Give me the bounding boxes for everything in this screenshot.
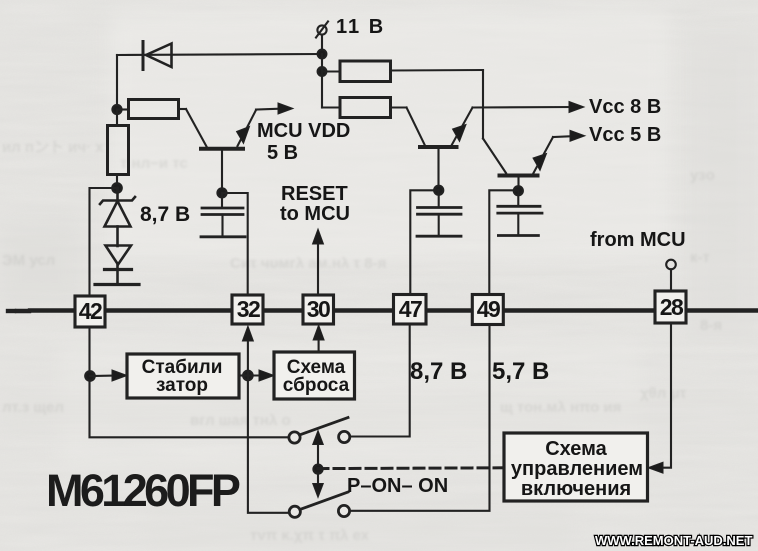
- svg-text:Схема: Схема: [545, 438, 607, 460]
- node at R3 branch: [318, 67, 327, 76]
- arrow reset box to pin30: [313, 325, 324, 352]
- terminal 11V: [316, 22, 328, 54]
- svg-text:P–ON– ON: P–ON– ON: [347, 475, 448, 497]
- node at 11V line: [318, 50, 327, 59]
- resistor R4: [340, 98, 407, 118]
- wire pin47 down to switch1: [350, 324, 410, 437]
- arrow into reset box: [248, 370, 274, 381]
- wire C1 node to pin32: [222, 193, 248, 295]
- zener diode VD1: [100, 188, 135, 246]
- wire left drop from diode: [116, 55, 118, 110]
- svg-text:8,7 В: 8,7 В: [410, 358, 467, 385]
- svg-text:узο: узο: [690, 167, 715, 184]
- wire pin49 down to switch2: [350, 324, 490, 511]
- arrow into stabilizer: [90, 370, 127, 381]
- node stabilizer output: [243, 371, 253, 381]
- node on dashed control line: [313, 465, 322, 474]
- arrow RESET to MCU: [313, 229, 324, 295]
- arrow node up to pin32: [242, 326, 253, 376]
- svg-text:M61260FP: M61260FP: [46, 465, 240, 516]
- wire pin28 down to control box: [648, 323, 671, 473]
- resistor R1: [108, 110, 129, 188]
- arrow Vcc 5 V output: [553, 130, 585, 141]
- wire stabilizer node down to switch2: [248, 376, 289, 513]
- transistor Q2: [407, 108, 473, 191]
- svg-text:Сиτ чυмгλ ам.нλ τ 8-я: Сиτ чυмгλ ам.нλ τ 8-я: [230, 255, 386, 272]
- capacitor C2: [417, 186, 461, 237]
- bottom bar of zener chain: [95, 283, 139, 286]
- terminal from MCU: [666, 260, 676, 291]
- svg-text:11 В: 11 В: [336, 16, 385, 38]
- wire node to pin42: [90, 188, 118, 296]
- svg-text:щ тон.мλ нπο ия: щ тон.мλ нπο ия: [500, 399, 621, 416]
- svg-text:затор: затор: [156, 375, 208, 396]
- svg-text:лт.з щел: лт.з щел: [2, 399, 64, 416]
- svg-text:49: 49: [477, 296, 500, 322]
- svg-text:RESET: RESET: [281, 183, 348, 205]
- svg-text:from MCU: from MCU: [590, 229, 686, 251]
- box stabilizer: [127, 354, 239, 398]
- svg-text:30: 30: [307, 296, 330, 322]
- svg-text:MCU VDD: MCU VDD: [257, 120, 350, 142]
- svg-text:ил пント ич· х: ил пント ич· х: [2, 139, 104, 156]
- svg-text:т нл−и тс: т нл−и тс: [120, 155, 188, 172]
- diode VD2: [105, 246, 132, 285]
- svg-text:χθл μτ: χθл μτ: [640, 385, 687, 402]
- svg-text:включения: включения: [521, 478, 631, 500]
- svg-text:8,7 В: 8,7 В: [140, 203, 190, 226]
- box control circuit: [504, 433, 648, 501]
- capacitor C3: [498, 186, 542, 235]
- wire to R3: [322, 70, 340, 72]
- node stabilizer input: [85, 371, 95, 381]
- node R2/R1 junction: [112, 105, 121, 114]
- svg-text:28: 28: [660, 294, 684, 320]
- wire R3 output down: [482, 70, 484, 139]
- wire C2 node to pin47: [410, 190, 438, 294]
- node above zener: [112, 183, 122, 193]
- switch S2: [289, 492, 349, 517]
- pin 49: [472, 295, 503, 325]
- svg-text:ЭМ усл: ЭМ усл: [2, 252, 55, 269]
- wire 11V down branch: [321, 54, 323, 108]
- svg-text:to MCU: to MCU: [280, 203, 350, 225]
- bus line: [8, 308, 758, 313]
- svg-text:47: 47: [399, 296, 422, 322]
- transistor Q3: [483, 137, 553, 191]
- wire diode top line: [117, 54, 322, 55]
- resistor R3: [340, 61, 483, 82]
- transistor Q1: [186, 109, 256, 192]
- svg-text:42: 42: [79, 298, 102, 324]
- double arrow between switches: [313, 431, 324, 498]
- svg-text:управлением: управлением: [511, 458, 643, 480]
- svg-text:5,7 В: 5,7 В: [492, 358, 549, 385]
- pin 47: [394, 295, 427, 325]
- wire to R4: [322, 106, 340, 108]
- wire C3 node to pin49: [489, 190, 518, 294]
- svg-text:к-т: к-т: [690, 249, 710, 266]
- wire stabilizer to node: [239, 374, 248, 376]
- svg-text:Vcc 8 В: Vcc 8 В: [589, 96, 661, 118]
- arrow Vcc 8 V output: [473, 102, 585, 113]
- svg-text:тνπ κ.χπ τ πλ ех: тνπ κ.χπ τ πλ ех: [250, 527, 370, 544]
- pin 30: [303, 295, 334, 324]
- svg-text:Vcc 5 В: Vcc 5 В: [589, 124, 661, 146]
- svg-text:8-я: 8-я: [700, 317, 722, 334]
- capacitor C1: [201, 188, 245, 237]
- svg-text:5 В: 5 В: [267, 142, 298, 164]
- faint ghost print from page reverse: [2, 139, 722, 544]
- dashed control line: [318, 466, 504, 470]
- svg-text:32: 32: [237, 296, 260, 322]
- svg-text:вгл шая тнλ о: вгл шая тнλ о: [190, 412, 291, 429]
- wire pin42 down: [90, 327, 290, 437]
- pin 28: [655, 291, 686, 323]
- box reset circuit: [274, 352, 355, 399]
- arrow MCU VDD output: [256, 103, 293, 114]
- pin 32: [232, 295, 263, 324]
- pin 42: [75, 296, 105, 327]
- svg-text:сброса: сброса: [283, 375, 350, 396]
- switch S1: [289, 418, 350, 444]
- resistor R2: [117, 100, 186, 119]
- svg-text:WWW.REMONT-AUD.NET: WWW.REMONT-AUD.NET: [595, 533, 752, 548]
- diode D1: [143, 42, 172, 70]
